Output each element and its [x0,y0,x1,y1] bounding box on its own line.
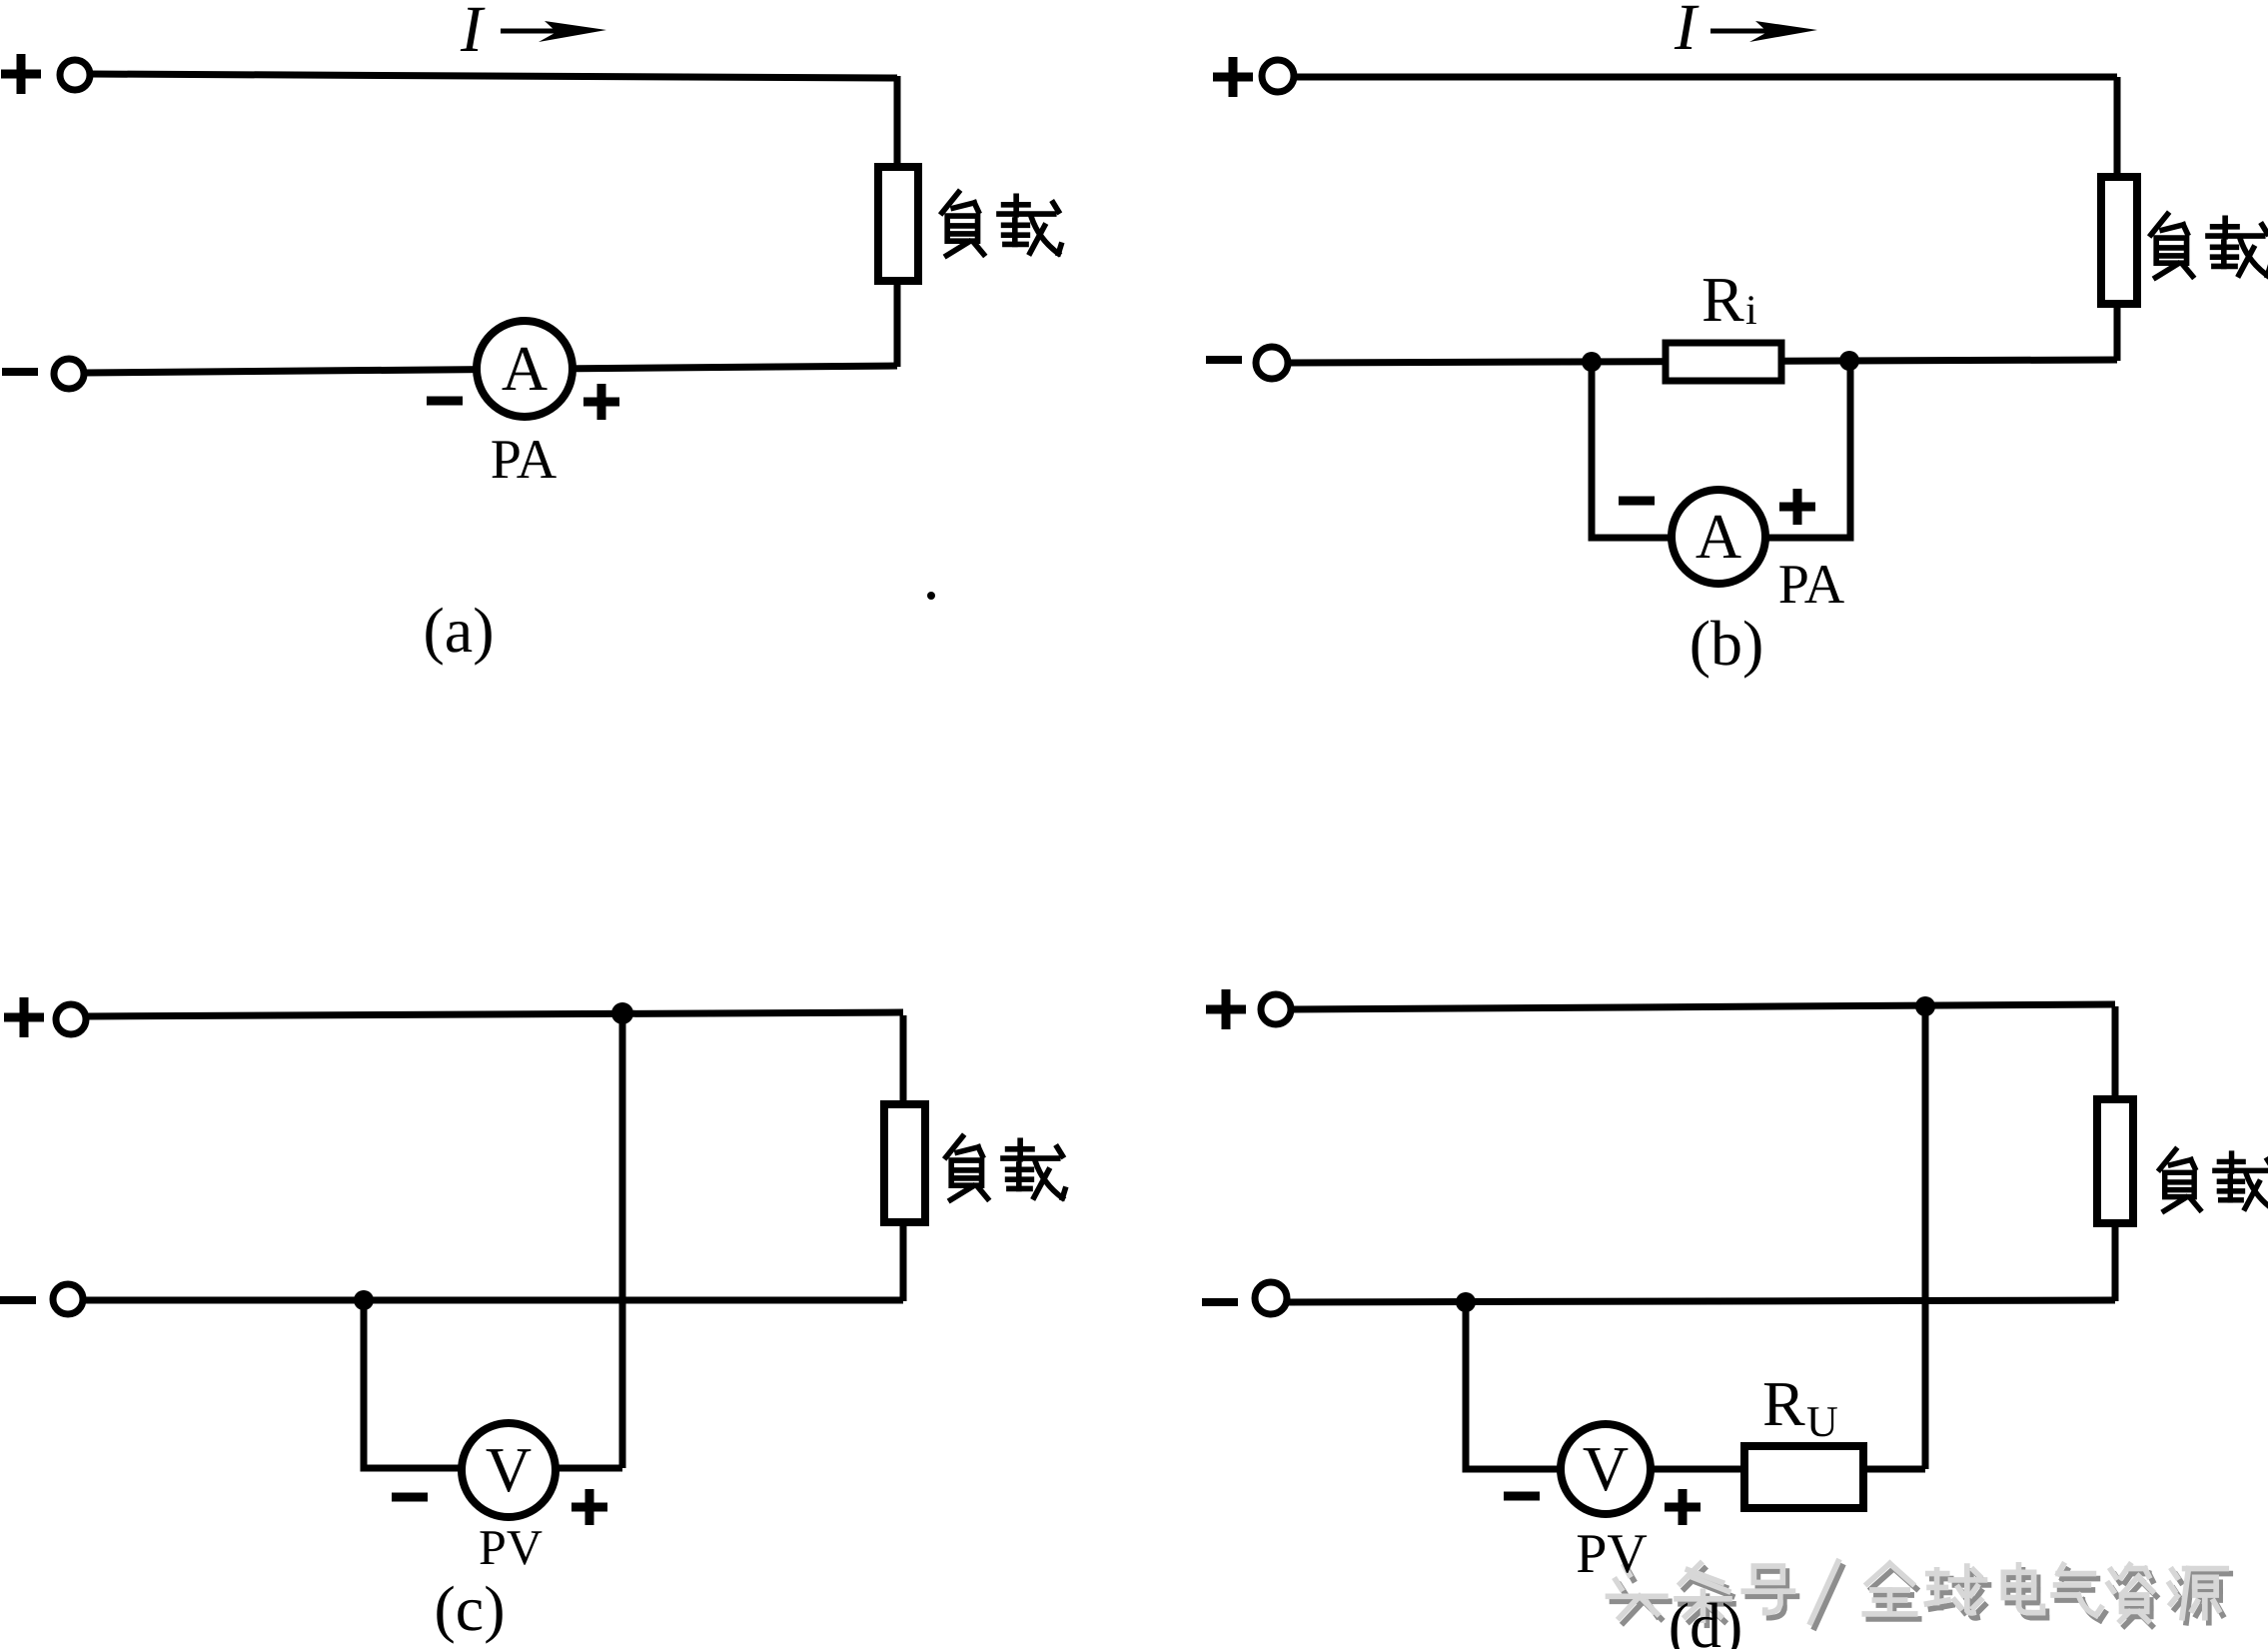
svg-text:PV: PV [1576,1523,1648,1585]
svg-text:V: V [1583,1433,1629,1504]
svg-text:A: A [502,333,548,404]
svg-text:(c): (c) [434,1573,505,1644]
svg-text:i: i [1745,288,1757,334]
svg-text:(a): (a) [423,595,494,666]
svg-text:PA: PA [491,429,558,491]
svg-text:I: I [1674,0,1700,64]
svg-text:V: V [486,1434,532,1505]
svg-text:PA: PA [1778,554,1845,616]
svg-text:I: I [460,0,486,66]
svg-text:R: R [1762,1368,1805,1439]
svg-text:U: U [1806,1397,1838,1446]
svg-text:(d): (d) [1669,1590,1743,1649]
svg-text:(b): (b) [1690,608,1764,679]
svg-text:A: A [1696,501,1741,572]
svg-text:PV: PV [479,1519,543,1575]
svg-text:R: R [1701,264,1744,335]
